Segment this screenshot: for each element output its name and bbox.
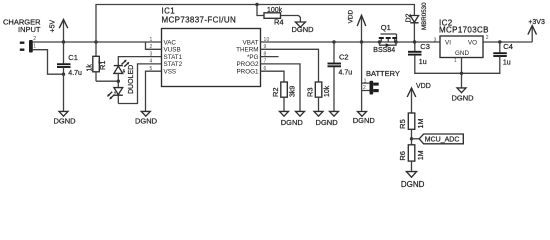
svg-text:C4: C4	[503, 42, 513, 51]
resistor R5	[398, 113, 425, 145]
ground DGND (C2)	[330, 111, 339, 116]
resistor R6	[398, 145, 425, 172]
svg-text:MCP73837-FCI/UN: MCP73837-FCI/UN	[162, 15, 237, 24]
connector X1 charger	[20, 36, 36, 52]
ground DGND (PROG2)	[296, 111, 305, 116]
capacitor C1	[57, 42, 82, 77]
diode D2 MBR0530	[405, 2, 428, 42]
svg-text:3: 3	[434, 38, 437, 44]
svg-text:MCP1703CB: MCP1703CB	[439, 25, 489, 34]
svg-text:STAT1: STAT1	[164, 54, 183, 61]
svg-text:1k: 1k	[87, 64, 94, 72]
node junction C2	[332, 40, 335, 43]
svg-text:DGND: DGND	[281, 118, 304, 127]
svg-text:1: 1	[364, 79, 367, 85]
svg-text:1M: 1M	[418, 150, 425, 160]
node junction C4	[498, 40, 501, 43]
svg-text:+5V: +5V	[50, 20, 57, 33]
capacitor C4	[462, 42, 513, 73]
svg-text:1u: 1u	[503, 59, 511, 66]
node junction battery/VDD	[360, 40, 363, 43]
IC1 MCP73837-FCI/UN charge controller	[150, 7, 270, 87]
svg-text:3: 3	[150, 51, 153, 57]
svg-text:C3: C3	[420, 42, 430, 51]
svg-text:100k: 100k	[267, 7, 283, 14]
ground DGND (charger)	[53, 74, 76, 125]
wire top rail	[96, 5, 414, 43]
svg-text:DGND: DGND	[451, 93, 474, 102]
emission arrows bottom LED	[110, 95, 115, 99]
svg-text:VI: VI	[445, 40, 451, 47]
svg-text:4.7u: 4.7u	[339, 69, 353, 76]
svg-text:2: 2	[33, 36, 36, 42]
svg-text:MBR0530: MBR0530	[421, 2, 428, 30]
svg-text:5: 5	[150, 66, 153, 72]
svg-text:DUOLED: DUOLED	[128, 65, 135, 94]
capacitor C3	[408, 42, 462, 73]
ground DGND (VSS)	[135, 111, 158, 125]
ground DGND (R2)	[280, 111, 289, 116]
svg-text:DGND: DGND	[353, 116, 376, 125]
ground DGND (R3)	[314, 111, 323, 116]
wire battery pin2 to ground	[361, 91, 363, 112]
svg-text:VAC: VAC	[164, 39, 177, 46]
wire VBAT rail	[261, 41, 441, 43]
svg-text:4.7u: 4.7u	[68, 70, 82, 77]
svg-text:gn: gn	[122, 69, 126, 73]
svg-text:MCU_ADC: MCU_ADC	[425, 137, 460, 144]
wire PROG2 to ground	[261, 64, 301, 111]
svg-text:1: 1	[454, 58, 457, 64]
net label MCU_ADC	[412, 134, 464, 144]
node junction D2/C3	[413, 40, 416, 43]
svg-text:R3: R3	[305, 87, 314, 97]
+5V supply	[50, 19, 68, 42]
svg-text:nn: nn	[97, 60, 101, 64]
node junction C1 bottom	[62, 73, 65, 76]
svg-text:DGND: DGND	[53, 117, 76, 126]
svg-text:DGND: DGND	[316, 118, 339, 127]
svg-text:PROG1: PROG1	[236, 69, 259, 76]
svg-text:VDD: VDD	[416, 83, 431, 90]
svg-text:STAT2: STAT2	[164, 61, 183, 68]
LED bottom (anode up)	[117, 81, 119, 87]
svg-text:1u: 1u	[419, 59, 427, 66]
svg-text:Q1: Q1	[381, 23, 391, 32]
svg-text:VBAT: VBAT	[243, 39, 259, 46]
svg-text:R4: R4	[274, 17, 284, 26]
svg-text:VSS: VSS	[164, 69, 177, 76]
connector battery	[362, 42, 400, 95]
svg-text:2: 2	[363, 85, 366, 91]
wire LED bottom to STAT2	[118, 64, 161, 104]
node junction GND rail	[460, 72, 463, 75]
wire GND stub	[461, 58, 463, 88]
svg-text:*PG: *PG	[247, 54, 259, 61]
resistor R1	[87, 42, 107, 81]
wire pin1 to gnd node	[33, 50, 64, 74]
svg-text:10k: 10k	[324, 85, 331, 97]
resistor R4	[257, 5, 300, 27]
emission arrows top LED	[122, 60, 127, 64]
node LED common anode	[117, 80, 120, 83]
wire VO	[483, 41, 532, 43]
wire VSS to ground	[146, 71, 162, 111]
svg-text:C2: C2	[339, 53, 349, 62]
svg-text:R5: R5	[398, 119, 407, 129]
LED top (cathode up)	[114, 65, 123, 67]
svg-text:VDD: VDD	[347, 10, 354, 24]
VDD supply (top)	[347, 10, 365, 42]
svg-text:D2: D2	[405, 13, 412, 22]
ground DGND (R6)	[401, 172, 425, 189]
svg-text:THERM: THERM	[236, 47, 258, 54]
svg-text:DGND: DGND	[401, 180, 425, 189]
svg-text:2: 2	[486, 35, 489, 41]
svg-text:1: 1	[150, 37, 153, 43]
svg-text:VUSB: VUSB	[164, 47, 181, 54]
svg-text:+3V3: +3V3	[528, 19, 545, 26]
svg-text:R2: R2	[271, 87, 280, 97]
svg-text:C1: C1	[68, 53, 78, 62]
svg-text:BATTERY: BATTERY	[366, 69, 400, 78]
svg-text:GND: GND	[455, 50, 469, 57]
svg-text:VO: VO	[468, 40, 477, 47]
+3V3 supply	[528, 19, 545, 42]
svg-text:1M: 1M	[418, 118, 425, 128]
svg-text:4: 4	[150, 59, 153, 65]
resistor R2 (PROG1)	[261, 71, 297, 111]
VDD supply (lower)	[407, 83, 431, 113]
wire VUSB tie to VAC	[146, 42, 162, 49]
IC2 MCP1703CB regulator	[434, 18, 489, 64]
svg-text:2: 2	[150, 44, 153, 50]
LED D1 DUOLED	[107, 57, 161, 104]
capacitor C2	[328, 42, 353, 111]
node junction rail/R4	[255, 3, 258, 6]
svg-text:PROG2: PROG2	[236, 61, 259, 68]
node junction +5V/C1 top	[62, 40, 65, 43]
ground DGND (R4)	[291, 22, 314, 34]
node junction ADC	[410, 137, 413, 140]
svg-text:INPUT: INPUT	[18, 25, 41, 34]
ground DGND (battery)	[353, 112, 376, 125]
svg-text:DGND: DGND	[135, 117, 158, 126]
wire pin2 to VAC	[33, 41, 162, 43]
ground DGND (IC2)	[451, 88, 474, 102]
svg-text:R6: R6	[398, 151, 407, 161]
svg-text:rt: rt	[113, 92, 117, 94]
wire STAT1 to LED top	[118, 57, 161, 66]
wire *PG stub	[261, 56, 279, 58]
wire R1 to LED junction	[96, 80, 118, 82]
resistor R3 (THERM)	[261, 49, 331, 111]
svg-text:BSS84: BSS84	[373, 47, 395, 54]
svg-text:3k9: 3k9	[289, 86, 296, 97]
node junction R1/top-rail	[94, 40, 97, 43]
transistor Q1 BSS84	[373, 23, 397, 54]
svg-text:1: 1	[33, 43, 36, 49]
svg-text:DGND: DGND	[291, 25, 314, 34]
